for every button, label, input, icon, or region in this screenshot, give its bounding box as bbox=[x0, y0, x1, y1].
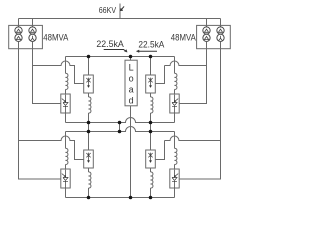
node bottom bus bbox=[66, 197, 175, 199]
wire V2 to bus1 bbox=[174, 113, 176, 123]
wire A2 to inductor L4 bbox=[150, 93, 152, 97]
arrow 22.5kA right bbox=[136, 50, 157, 53]
wire left outer secondary lead bbox=[19, 41, 61, 179]
node 66KV flow arrow bbox=[120, 6, 124, 10]
node dot bottom bus left bbox=[87, 196, 91, 200]
load box bbox=[125, 60, 137, 106]
valve box V3 bbox=[61, 169, 70, 188]
wire A3 to inductor L6 bbox=[88, 168, 90, 172]
arrester box A2 bbox=[146, 75, 156, 93]
wire arrester A1 column bbox=[88, 57, 90, 76]
wire right branch to arrester A2 (hop) bbox=[155, 61, 206, 83]
svg-text:d: d bbox=[129, 95, 134, 105]
inductor L7 bbox=[175, 148, 177, 164]
inductor L3 bbox=[175, 73, 177, 89]
wire L3 column drop bbox=[174, 57, 176, 74]
svg-text:22.5kA: 22.5kA bbox=[138, 39, 164, 49]
valve box V4 bbox=[170, 169, 179, 188]
svg-text:22.5kA: 22.5kA bbox=[96, 39, 123, 49]
inductor L4 bbox=[151, 97, 153, 113]
wire arrester A2 column bbox=[150, 57, 152, 76]
transformer bank box left bbox=[9, 25, 43, 48]
node bus1 (hop over load line) bbox=[66, 118, 175, 123]
wire L5 to valve box bbox=[65, 164, 67, 169]
node bus2 (hop over load line) bbox=[66, 127, 175, 132]
node dot bus2 center bbox=[118, 130, 122, 134]
wire A1 to inductor L2 bbox=[88, 93, 90, 97]
transformer bank box right bbox=[197, 25, 231, 48]
transformer T1 bbox=[15, 27, 22, 42]
wire L2 to bus1 bbox=[88, 113, 90, 123]
node dot bus2 left bbox=[87, 130, 91, 134]
transformer T2 bbox=[29, 27, 36, 42]
svg-text:66KV: 66KV bbox=[99, 5, 117, 15]
svg-text:48MVA: 48MVA bbox=[43, 33, 68, 43]
transformer T3 bbox=[203, 27, 210, 42]
thyristor symbol V4 bbox=[172, 170, 178, 188]
wire L8 to bottom bus bbox=[150, 188, 152, 198]
inductor L2 bbox=[89, 97, 91, 113]
wire L6 to bottom bus bbox=[88, 188, 90, 198]
arrester symbol A1 bbox=[86, 78, 90, 88]
arrester box A3 bbox=[84, 150, 94, 168]
wire load to bottom bus bbox=[130, 106, 132, 198]
wire V1 to bus1 bbox=[65, 113, 67, 123]
inductor L1 bbox=[66, 73, 68, 89]
wire arrester A3 column bbox=[88, 132, 90, 151]
wire L1 to valve box bbox=[65, 89, 67, 94]
node dot bottom bus / load bbox=[129, 196, 133, 200]
wire V4 to bottom bus bbox=[174, 188, 176, 198]
thyristor symbol V2 bbox=[172, 95, 178, 113]
label Load bbox=[129, 62, 134, 105]
svg-text:a: a bbox=[129, 85, 134, 95]
svg-text:48MVA: 48MVA bbox=[171, 33, 196, 43]
node dot bus1 left bbox=[87, 121, 91, 125]
thyristor symbol V1 bbox=[62, 95, 68, 113]
wire right outer secondary lead bbox=[179, 41, 220, 179]
arrester symbol A3 bbox=[86, 153, 90, 163]
arrester box A4 bbox=[146, 150, 156, 168]
wire L7 to valve box bbox=[174, 164, 176, 169]
wire L1 column drop bbox=[65, 57, 67, 74]
inductor L6 bbox=[89, 172, 91, 188]
wire 66KV feed drop bbox=[119, 4, 121, 19]
node 66KV feeder line bbox=[19, 18, 221, 20]
wire V3 to bottom bus bbox=[65, 188, 67, 198]
arrester symbol A2 bbox=[148, 78, 152, 88]
wire L4 to bus1 bbox=[150, 113, 152, 123]
wire L5 column drop bbox=[65, 132, 67, 149]
node dot bus2 right bbox=[149, 130, 153, 134]
svg-text:L: L bbox=[129, 62, 134, 72]
node dot bottom bus right bbox=[149, 196, 153, 200]
wire bus link center bbox=[119, 123, 121, 132]
wire L7 column drop bbox=[174, 132, 176, 149]
wire bus link left bbox=[88, 123, 90, 132]
wire bus link right bbox=[150, 123, 152, 132]
valve box V1 bbox=[61, 94, 70, 113]
wire load drop bbox=[130, 57, 132, 61]
node dot bus1 center bbox=[118, 121, 122, 125]
wire left branch to arrester A1 (hop) bbox=[33, 61, 84, 83]
thyristor symbol V3 bbox=[62, 170, 68, 188]
node dot top bus / load bbox=[129, 55, 133, 59]
wire arrester A4 column bbox=[150, 132, 152, 151]
wire bottom-right branch to arrester A4 (hop) bbox=[155, 136, 220, 159]
wire left inner secondary lead bbox=[33, 41, 61, 103]
valve box V2 bbox=[170, 94, 179, 113]
node dot bus1 right bbox=[149, 121, 153, 125]
transformer T4 bbox=[217, 27, 224, 42]
arrow 22.5kA left bbox=[104, 50, 128, 53]
inductor L8 bbox=[151, 172, 153, 188]
arrester box A1 bbox=[84, 75, 94, 93]
wire L3 to valve box bbox=[174, 89, 176, 94]
wire right inner secondary lead bbox=[179, 41, 206, 103]
wire transformer primary leads bbox=[19, 19, 221, 27]
node dot top bus / A2 bbox=[149, 55, 153, 59]
wire A4 to inductor L8 bbox=[150, 168, 152, 172]
svg-text:o: o bbox=[129, 74, 134, 84]
inductor L5 bbox=[66, 148, 68, 164]
wire bottom-left branch to arrester A3 (hop) bbox=[19, 136, 84, 159]
arrester symbol A4 bbox=[148, 153, 152, 163]
node top bus bbox=[66, 56, 175, 58]
node dot top bus / A1 bbox=[87, 55, 91, 59]
